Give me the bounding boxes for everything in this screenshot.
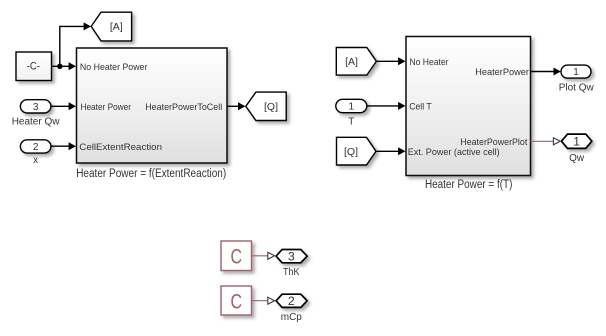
constant block C (mCp) xyxy=(221,286,252,315)
wire HeaterPower output to outport Plot Qw xyxy=(531,68,561,76)
svg-text:Heater Power = f(ExtentReactio: Heater Power = f(ExtentReaction) xyxy=(76,168,226,180)
goto tag [Q] xyxy=(246,92,286,120)
svg-text:2: 2 xyxy=(288,294,295,308)
svg-text:3: 3 xyxy=(33,102,39,113)
wire inport 2 to CellExtentReaction port xyxy=(51,142,76,150)
svg-text:[Q]: [Q] xyxy=(344,146,358,158)
junction dot xyxy=(57,64,62,69)
svg-text:Heater Power: Heater Power xyxy=(81,102,132,113)
constant block -C- xyxy=(16,52,52,81)
goto tag [A] xyxy=(91,12,131,41)
maroon wire C to ThK xyxy=(252,255,268,257)
wire from tag Q to Ext. Power port xyxy=(376,147,406,155)
outport 3 ThK (hexagon) xyxy=(276,250,307,279)
svg-text:No Heater Power: No Heater Power xyxy=(80,62,147,73)
outport 2 mCp (hexagon) xyxy=(276,294,307,323)
svg-text:C: C xyxy=(230,290,242,313)
hollow arrowhead into ThK xyxy=(268,252,275,259)
svg-text:CellExtentReaction: CellExtentReaction xyxy=(79,142,162,153)
svg-text:Heater Qw: Heater Qw xyxy=(12,117,61,128)
wire inport 3 to Heater Power port xyxy=(51,102,76,110)
maroon wire C to mCp xyxy=(252,300,268,302)
hollow arrowhead into Qw xyxy=(553,138,560,145)
svg-text:[A]: [A] xyxy=(110,21,123,33)
svg-text:HeaterPower: HeaterPower xyxy=(475,67,529,78)
svg-text:3: 3 xyxy=(288,250,295,264)
svg-text:T: T xyxy=(348,117,354,128)
svg-text:2: 2 xyxy=(33,142,39,153)
inport 2 x xyxy=(20,140,51,166)
svg-text:C: C xyxy=(230,246,242,269)
svg-text:1: 1 xyxy=(349,102,355,113)
maroon wire HeaterPowerPlot output xyxy=(531,140,554,142)
svg-text:[A]: [A] xyxy=(345,56,358,68)
svg-text:Heater Power = f(T): Heater Power = f(T) xyxy=(425,179,513,191)
svg-text:Ext. Power (active cell): Ext. Power (active cell) xyxy=(408,147,500,158)
svg-text:mCp: mCp xyxy=(281,312,303,323)
svg-text:1: 1 xyxy=(573,67,579,78)
outport 1 Plot Qw xyxy=(559,65,595,94)
wire -C- to block port 1 xyxy=(52,62,77,70)
svg-text:No Heater: No Heater xyxy=(410,57,449,68)
svg-text:HeaterPowerToCell: HeaterPowerToCell xyxy=(145,102,222,113)
hollow arrowhead into mCp xyxy=(268,297,275,304)
svg-text:1: 1 xyxy=(573,135,580,149)
wire inport T to Cell T port xyxy=(367,102,406,110)
subsystem block Heater Power = f(ExtentReaction) xyxy=(76,48,227,180)
from tag [A] (right side) xyxy=(336,48,376,76)
inport 1 T xyxy=(336,99,367,127)
svg-text:ThK: ThK xyxy=(283,267,300,278)
svg-text:Qw: Qw xyxy=(569,153,585,164)
from tag [Q] (right side) xyxy=(337,137,377,165)
svg-text:Cell T: Cell T xyxy=(409,102,432,113)
wire from junction up to Goto tag A xyxy=(60,22,91,66)
wire from tag A to No Heater port xyxy=(376,57,405,65)
svg-text:Plot Qw: Plot Qw xyxy=(559,83,595,94)
wire block output to goto Q xyxy=(227,102,245,110)
svg-text:[Q]: [Q] xyxy=(264,101,278,113)
svg-text:-C-: -C- xyxy=(27,60,40,72)
subsystem block Heater Power = f(T) xyxy=(406,37,531,192)
svg-text:x: x xyxy=(33,155,38,166)
inport 3 Heater Qw xyxy=(12,100,61,128)
constant block C (ThK) xyxy=(221,241,252,271)
outport 1 Qw (hexagon) xyxy=(562,134,592,164)
